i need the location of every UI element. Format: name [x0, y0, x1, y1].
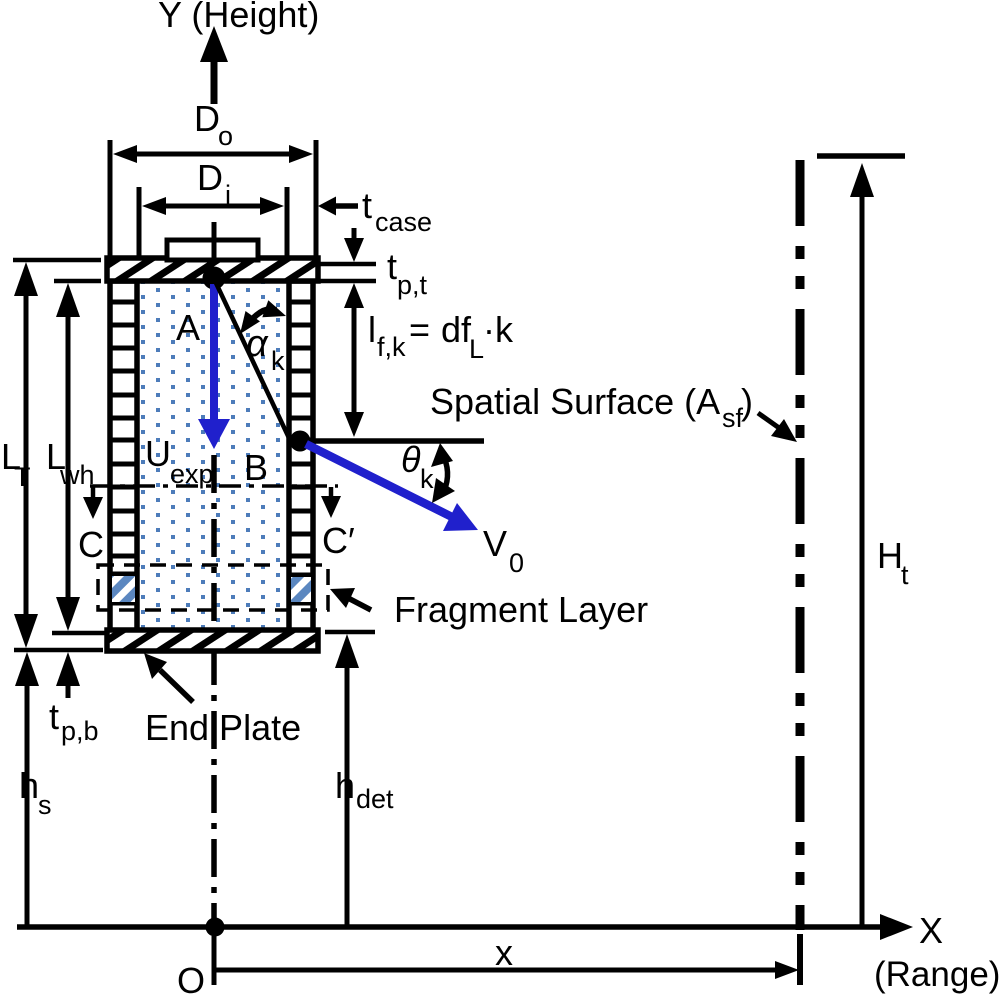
blue fragment cell left	[112, 576, 135, 602]
svg-text:s: s	[38, 790, 52, 820]
svg-text:U: U	[145, 433, 171, 474]
svg-text:·k: ·k	[483, 309, 514, 350]
booster cap	[167, 240, 258, 260]
origin point	[206, 918, 225, 937]
l_f,k = df_L k label	[368, 309, 514, 364]
svg-text:D: D	[197, 157, 223, 198]
t_case arrow pointing left at case	[318, 197, 358, 216]
right wall rungs	[289, 302, 313, 603]
svg-text:df: df	[441, 309, 472, 350]
X axis	[17, 914, 913, 940]
L_T tick bottom	[14, 648, 103, 653]
Di extension line left	[137, 187, 142, 257]
Di dimension arrow	[142, 197, 284, 215]
l_f,k dimension arrow	[344, 283, 364, 437]
Di extension line right	[285, 187, 290, 257]
h_det tick	[325, 630, 375, 635]
svg-text:h: h	[335, 765, 355, 806]
svg-text:k: k	[420, 464, 434, 494]
svg-text:t: t	[901, 560, 909, 590]
svg-text:End Plate: End Plate	[145, 707, 301, 748]
Spatial Surface leader arrow	[758, 413, 797, 442]
Y axis arrow	[200, 26, 228, 104]
svg-text:case: case	[375, 207, 432, 237]
svg-text:D: D	[194, 98, 220, 139]
centerline tick above warhead	[212, 222, 217, 258]
top end plate	[107, 258, 318, 281]
left wall rungs	[110, 302, 137, 603]
fragment layer leader arrow	[330, 588, 371, 610]
point A	[203, 267, 226, 290]
svg-text:V: V	[483, 523, 507, 564]
t_p,t tick upper	[320, 262, 376, 267]
svg-text:h: h	[19, 765, 39, 806]
bottom end plate	[107, 630, 318, 651]
svg-text:p,b: p,b	[61, 716, 99, 746]
svg-text:L: L	[469, 334, 484, 364]
h_det dimension arrow	[335, 634, 359, 927]
svg-text:Spatial Surface (A: Spatial Surface (A	[430, 381, 720, 422]
svg-text:p,t: p,t	[397, 270, 428, 300]
svg-text:t: t	[49, 696, 59, 737]
svg-text:f,k: f,k	[377, 332, 406, 362]
svg-text:=: =	[409, 309, 430, 350]
x dim tick	[797, 934, 803, 985]
L_wh tick bottom	[52, 631, 106, 636]
Do dimension arrow	[113, 145, 313, 163]
centerline below origin	[212, 936, 217, 985]
blue fragment cell right	[291, 577, 311, 602]
right wall	[289, 281, 313, 631]
svg-text:t: t	[387, 246, 397, 287]
svg-text:θ: θ	[401, 439, 421, 480]
diagonal line A to B	[216, 283, 289, 438]
alpha_k arc arrow	[240, 300, 286, 334]
svg-text:T: T	[14, 462, 31, 492]
L_T tick top	[13, 258, 101, 263]
x dimension arrow	[215, 961, 799, 979]
svg-text:x: x	[495, 932, 513, 973]
explosive dotted fill	[140, 281, 286, 631]
svg-text:0: 0	[509, 548, 524, 578]
L_T dimension arrow	[14, 262, 38, 648]
spatial surface line at B	[304, 438, 484, 444]
svg-text:α: α	[246, 323, 269, 365]
Do extension line left	[108, 140, 113, 257]
fragment layer dashed box	[98, 565, 328, 610]
spatial surface vertical dash-dot line	[796, 160, 805, 930]
svg-text:l: l	[368, 309, 376, 350]
svg-text:k: k	[271, 346, 285, 376]
svg-text:C′: C′	[322, 520, 355, 561]
Do extension line right	[314, 140, 319, 257]
svg-text:X: X	[919, 910, 943, 951]
svg-text:o: o	[218, 121, 233, 151]
theta_k arc arrow	[431, 443, 455, 503]
svg-text:B: B	[244, 447, 268, 488]
svg-text:det: det	[356, 784, 394, 814]
H_t dimension arrow	[850, 163, 874, 927]
h_s dimension arrow	[15, 652, 39, 927]
blue detonation arrow A	[198, 284, 230, 449]
svg-text:wh: wh	[59, 460, 95, 490]
target top line	[817, 153, 905, 159]
L_wh dimension arrow	[56, 283, 80, 631]
svg-text:Y (Height): Y (Height)	[158, 0, 319, 35]
V0 velocity arrow	[306, 444, 478, 531]
End Plate leader arrow	[144, 653, 193, 702]
point B	[290, 431, 311, 452]
C section arrow left	[83, 487, 103, 519]
L_wh tick top	[54, 279, 101, 284]
C-C' section dash-dot line	[90, 484, 338, 488]
svg-text:t: t	[362, 185, 372, 226]
down arrow pointing at plate top	[344, 228, 364, 262]
svg-text:): )	[741, 381, 753, 422]
svg-text:H: H	[877, 535, 903, 576]
svg-text:C: C	[78, 524, 104, 565]
left wall	[110, 281, 137, 631]
svg-text:(Range): (Range)	[874, 955, 1000, 994]
t_p,t tick lower	[320, 279, 376, 284]
t_p,b up arrow	[56, 652, 80, 698]
warhead centerline dash-dot	[211, 455, 217, 927]
svg-text:O: O	[177, 960, 205, 999]
svg-text:Fragment Layer: Fragment Layer	[394, 589, 648, 630]
svg-text:A: A	[176, 307, 200, 348]
C' section arrow right	[321, 487, 341, 518]
